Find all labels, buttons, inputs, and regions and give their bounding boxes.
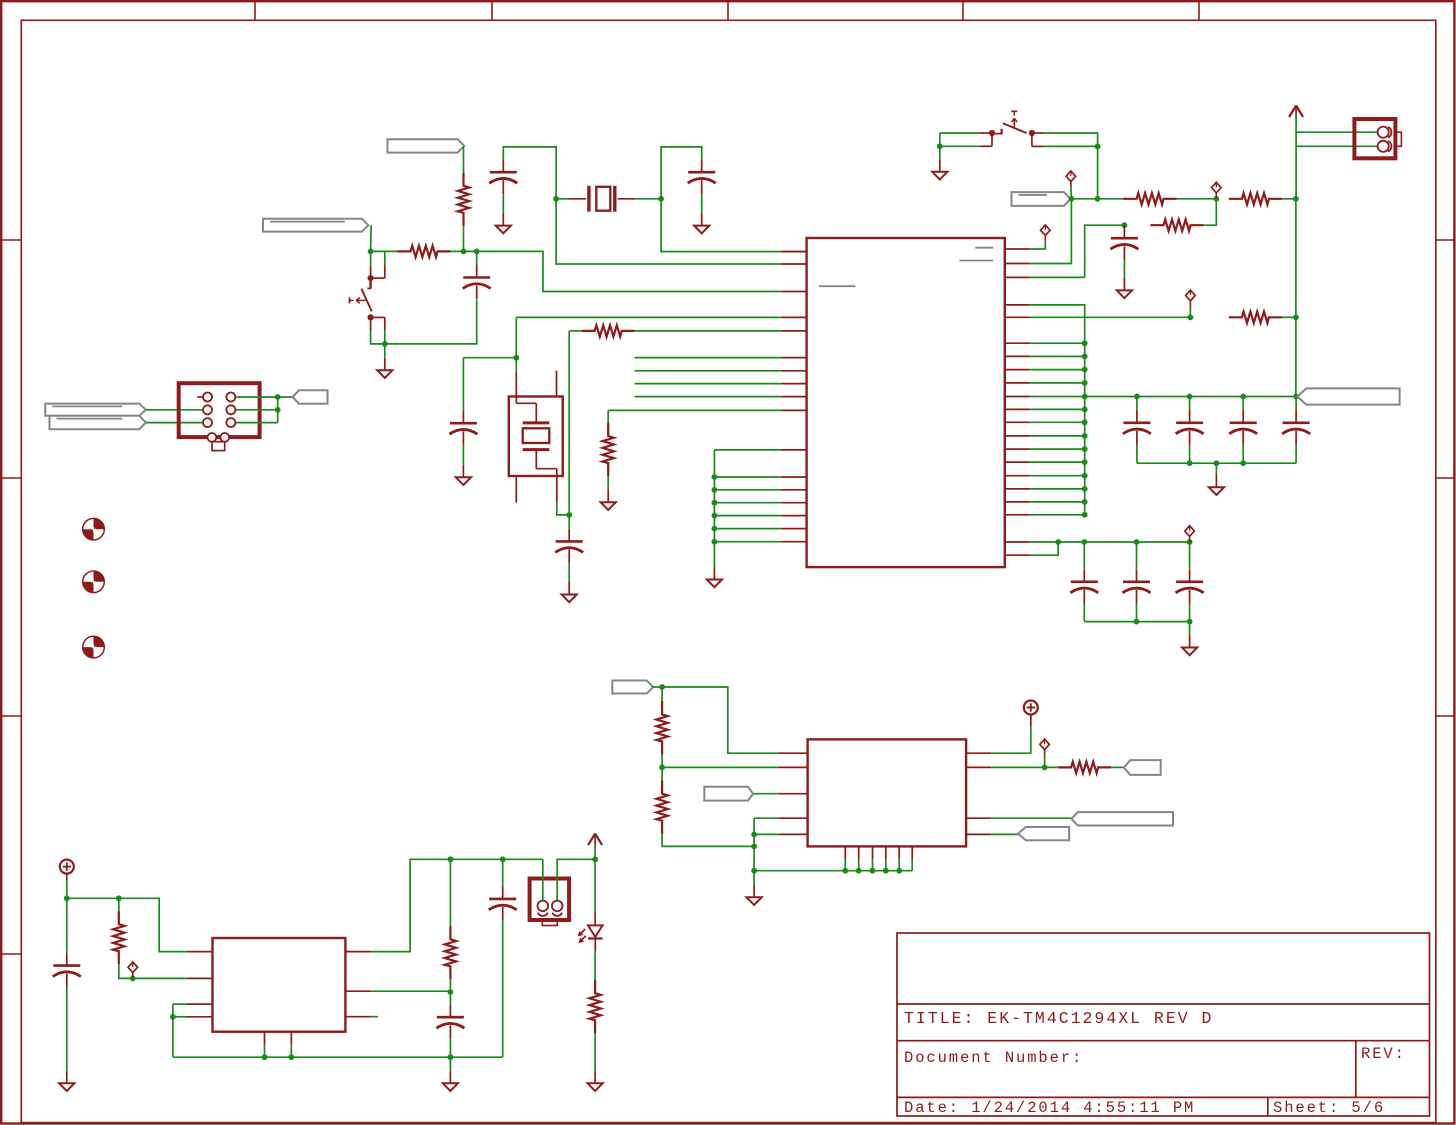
- pin: [345, 951, 371, 953]
- title block line 1: [897, 1003, 1430, 1005]
- pin: [1005, 263, 1030, 265]
- ground: [932, 159, 947, 179]
- pin: [264, 1032, 266, 1045]
- junction: [513, 355, 519, 361]
- wire: [1030, 541, 1190, 543]
- pin: [1005, 448, 1030, 450]
- pin: [290, 1032, 292, 1045]
- wire: [1189, 445, 1191, 464]
- wire: [67, 897, 119, 899]
- frame top tick 3: [727, 1, 729, 20]
- wire: [66, 879, 68, 898]
- pin: [979, 132, 990, 134]
- junction: [883, 868, 889, 874]
- pin: [778, 766, 807, 768]
- pin: [187, 1003, 213, 1005]
- wire: [66, 898, 68, 953]
- pin: [844, 846, 846, 859]
- junction: [659, 765, 665, 771]
- wire: [753, 818, 755, 871]
- wire: [1030, 421, 1085, 423]
- net flag WAKE: [388, 139, 465, 152]
- wire: [661, 147, 702, 199]
- pin: [778, 833, 807, 835]
- wire: [607, 410, 609, 423]
- wire: [462, 445, 464, 465]
- wire: [371, 300, 477, 344]
- pin: [782, 291, 807, 293]
- resistor R11: [589, 980, 600, 1033]
- junction: [1134, 619, 1140, 625]
- pin: [515, 476, 517, 503]
- ground: [496, 213, 511, 233]
- wire: [594, 951, 596, 980]
- wire: [1030, 475, 1085, 477]
- junction: [1069, 196, 1075, 202]
- wire: [503, 147, 556, 199]
- pin: [782, 396, 807, 398]
- pin: [1005, 369, 1030, 371]
- ground: [694, 213, 709, 233]
- pin: [1005, 355, 1030, 357]
- wire: [236, 396, 278, 398]
- wire: [66, 988, 68, 1071]
- capacitor C15: [53, 953, 81, 988]
- wire: [754, 833, 778, 835]
- pin: [1005, 475, 1030, 477]
- wire: [1085, 225, 1125, 277]
- capacitor C12: [1176, 569, 1204, 604]
- frame left tick 1: [1, 239, 21, 241]
- junction: [856, 868, 862, 874]
- pin: [782, 409, 807, 411]
- pin: [187, 1016, 213, 1018]
- junction: [1293, 394, 1299, 400]
- title block REV divider: [1355, 1041, 1357, 1098]
- wire: [1030, 369, 1085, 371]
- wire: [635, 396, 782, 398]
- wire: [1136, 542, 1138, 569]
- pin: [1005, 435, 1030, 437]
- junction: [448, 856, 454, 862]
- pin: [858, 846, 860, 859]
- ground: [1209, 475, 1224, 495]
- ground: [456, 465, 471, 485]
- rev text: [1361, 1045, 1406, 1063]
- wire: [1030, 396, 1137, 398]
- junction: [566, 512, 572, 518]
- junction: [170, 1014, 176, 1020]
- junction: [1095, 144, 1101, 150]
- wire: [556, 199, 782, 264]
- wire: [594, 859, 596, 913]
- wire: [1282, 198, 1296, 200]
- net flag FAULT: [704, 787, 753, 801]
- net flag WAKE2: [1012, 192, 1071, 206]
- wire: [370, 225, 373, 251]
- wire: [371, 250, 398, 252]
- connector J1: [179, 383, 260, 437]
- junction: [1082, 419, 1088, 425]
- wire: [635, 370, 782, 372]
- LED D1: [578, 912, 603, 951]
- capacitor C11: [1123, 569, 1151, 604]
- wire: [753, 871, 755, 885]
- IC U2 regulator: [213, 938, 346, 1032]
- wire: [277, 397, 279, 423]
- wire: [939, 133, 941, 146]
- fiducial FD1: [83, 518, 105, 540]
- junction: [1082, 433, 1088, 439]
- wire: [1030, 241, 1046, 249]
- wire: [1030, 316, 1191, 318]
- resistor R9: [113, 911, 124, 964]
- document number text: [904, 1049, 1083, 1067]
- wire: [1136, 604, 1138, 622]
- bottom rail wire: [1137, 462, 1296, 464]
- wire: [557, 503, 569, 515]
- frame right tick 3: [1436, 715, 1455, 717]
- junction: [1122, 222, 1128, 228]
- ground: [1182, 635, 1197, 655]
- wire: [568, 563, 570, 582]
- wire: [939, 146, 941, 159]
- wire: [885, 859, 887, 871]
- junction: [751, 844, 757, 850]
- pin: [1005, 276, 1030, 278]
- wire: [1137, 396, 1296, 398]
- pin: [1005, 316, 1030, 318]
- svg-text:Document Number:: Document Number:: [904, 1049, 1083, 1067]
- wire: [1296, 113, 1377, 132]
- wire: [1030, 305, 1085, 515]
- wire: [1242, 445, 1244, 464]
- switch pole: [989, 130, 995, 136]
- wire: [516, 316, 781, 318]
- wire: [911, 859, 913, 871]
- pin: [1032, 135, 1044, 146]
- wire: [1189, 604, 1191, 622]
- junction: [1293, 314, 1299, 320]
- wire: [146, 409, 203, 411]
- capacitor C16: [436, 1005, 464, 1039]
- frame left tick 3: [1, 715, 21, 717]
- oscillator module Y2: [509, 397, 563, 477]
- junction: [659, 684, 665, 690]
- wire: [371, 859, 543, 951]
- wire: [384, 251, 386, 265]
- ground: [59, 1071, 74, 1091]
- capacitor C3: [489, 160, 517, 195]
- wire: [502, 921, 504, 1057]
- wire: [858, 859, 860, 871]
- wire: [1030, 435, 1085, 437]
- wire: [568, 515, 570, 529]
- capacitor C6: [1123, 410, 1151, 445]
- junction: [870, 868, 876, 874]
- frame left tick 4: [1, 953, 21, 955]
- wire: [1136, 445, 1138, 464]
- junction: [1082, 407, 1088, 413]
- junction: [712, 526, 718, 532]
- wire: [384, 344, 386, 358]
- junction: [712, 487, 718, 493]
- wire: [371, 1016, 378, 1018]
- wire: [515, 358, 517, 372]
- frame top tick 4: [962, 1, 964, 20]
- wire: [173, 1016, 187, 1018]
- pin: [1005, 396, 1030, 398]
- pin: [515, 372, 517, 397]
- junction: [1214, 460, 1220, 466]
- pin: [782, 383, 807, 385]
- wire: [1177, 198, 1217, 200]
- title block line 2: [897, 1040, 1430, 1042]
- wire: [1123, 260, 1125, 278]
- pin: [966, 752, 991, 754]
- wire: [449, 1039, 451, 1057]
- pin: [1005, 248, 1030, 250]
- pin: [898, 846, 900, 859]
- pin: [187, 977, 213, 979]
- wire: [502, 194, 504, 213]
- wire: [236, 409, 278, 411]
- wire: [872, 859, 874, 871]
- pin: [782, 449, 807, 451]
- wire: [1295, 132, 1297, 199]
- junction: [712, 513, 718, 519]
- wire: [463, 147, 465, 173]
- net flag VIN SW: [1071, 812, 1173, 825]
- connector J3: [530, 879, 570, 926]
- supply diamond: [1066, 171, 1076, 187]
- pin: [1005, 382, 1030, 384]
- capacitor C5: [1110, 226, 1138, 261]
- junction: [288, 1054, 294, 1060]
- wire: [1030, 448, 1085, 450]
- date text: [904, 1099, 1195, 1117]
- wire: [236, 422, 278, 424]
- supply diamond: [1041, 225, 1051, 241]
- wire: [449, 859, 451, 926]
- pin: [778, 817, 807, 819]
- wire: [146, 422, 203, 424]
- pin: [782, 330, 807, 332]
- wire: [1204, 199, 1217, 225]
- pin: [1005, 421, 1030, 423]
- capacitor C14: [555, 529, 583, 564]
- net flag PGOOD: [1124, 760, 1161, 775]
- wire: [635, 383, 782, 385]
- wire: [370, 251, 372, 266]
- svg-text:Date: 1/24/2014 4:55:11 PM: Date: 1/24/2014 4:55:11 PM: [904, 1099, 1195, 1117]
- wire: [1030, 408, 1085, 410]
- wire: [569, 330, 581, 332]
- IC U1 label line: [819, 285, 856, 287]
- junction: [896, 868, 902, 874]
- wire: [1136, 397, 1138, 411]
- wire: [1071, 198, 1124, 200]
- switch pole: [368, 314, 374, 320]
- capacitor C8: [1229, 410, 1257, 445]
- ground: [1117, 278, 1132, 298]
- IC U3: [808, 739, 967, 846]
- wire: [713, 450, 715, 567]
- pin: [782, 251, 807, 253]
- junction: [712, 500, 718, 506]
- net flag FB: [1018, 827, 1069, 840]
- switch S1: [992, 111, 1027, 134]
- module crystal symbol: [516, 397, 557, 477]
- supply diamond: [1186, 290, 1196, 306]
- wire: [449, 979, 451, 992]
- fiducial FD2: [83, 571, 105, 593]
- pin: [1005, 408, 1030, 410]
- ground: [562, 582, 577, 602]
- IC U1: [807, 238, 1005, 567]
- pin: [1005, 461, 1030, 463]
- pin: [345, 1016, 371, 1018]
- wire: [515, 317, 517, 357]
- connector J2: [1354, 119, 1401, 158]
- wire: [662, 834, 754, 847]
- junction: [1081, 539, 1087, 545]
- junction: [1134, 394, 1140, 400]
- pin: [966, 833, 991, 835]
- wire: [118, 898, 120, 911]
- frame top tick 1: [254, 1, 256, 20]
- wire: [451, 251, 782, 291]
- pin: [371, 317, 385, 330]
- wire: [1044, 755, 1046, 767]
- svg-text:TITLE: EK-TM4C1294XL REV D: TITLE: EK-TM4C1294XL REV D: [904, 1009, 1213, 1028]
- sheet text: [1273, 1099, 1385, 1117]
- wire: [1070, 187, 1073, 199]
- wire: [991, 817, 1072, 819]
- junction: [116, 895, 122, 901]
- IC U1 name line: [975, 247, 993, 249]
- IC U1 value line: [959, 260, 993, 262]
- wire: [714, 449, 781, 451]
- pin: [966, 766, 991, 768]
- junction: [1188, 314, 1194, 320]
- capacitor C2: [463, 265, 491, 300]
- pin: [782, 502, 807, 504]
- wire: [449, 1057, 451, 1071]
- wire: [384, 330, 386, 344]
- crystal Y1: [569, 186, 636, 212]
- pin: [778, 752, 807, 754]
- wire: [1083, 604, 1085, 622]
- junction: [1187, 539, 1193, 545]
- fiducial FD3: [83, 636, 105, 658]
- wire: [1189, 542, 1191, 569]
- wire: [1296, 145, 1377, 147]
- wire: [278, 396, 293, 398]
- junction: [937, 143, 943, 149]
- title block Sheet divider: [1267, 1097, 1269, 1116]
- resistor R3: [1124, 193, 1177, 204]
- pin: [1005, 501, 1030, 503]
- wire: [542, 859, 544, 901]
- wire: [661, 687, 663, 702]
- wire: [661, 199, 782, 252]
- wire: [714, 528, 781, 530]
- wire: [449, 992, 451, 1005]
- wire: [1044, 145, 1098, 147]
- resistor R6: [1150, 220, 1203, 231]
- title block box: [897, 933, 1430, 1116]
- capacitor C9: [1282, 410, 1310, 445]
- pin: [979, 135, 992, 146]
- net flag RESET: [263, 219, 368, 232]
- wire: [462, 358, 464, 411]
- net flag TDO: [293, 390, 328, 404]
- wire: [290, 1044, 292, 1057]
- wire: [1295, 445, 1297, 464]
- frame right tick 1: [1436, 239, 1455, 241]
- junction: [712, 474, 718, 480]
- pin: [1034, 132, 1044, 134]
- wire: [463, 226, 465, 252]
- capacitor C13: [449, 411, 477, 446]
- ground: [588, 1071, 603, 1091]
- pin: [345, 990, 371, 992]
- pin: [1005, 554, 1030, 556]
- junction: [275, 394, 281, 400]
- pin: [187, 951, 213, 953]
- wire: [1030, 199, 1072, 264]
- junction: [592, 856, 598, 862]
- junction: [1082, 486, 1088, 492]
- wire: [264, 1044, 266, 1057]
- svg-text:Sheet: 5/6: Sheet: 5/6: [1273, 1099, 1385, 1117]
- wire: [463, 357, 516, 359]
- supply diamond: [1212, 182, 1222, 198]
- junction: [1082, 367, 1088, 373]
- wire: [1282, 316, 1296, 318]
- pin: [1005, 514, 1030, 516]
- wire: [594, 1033, 596, 1071]
- net flag TCK: [45, 404, 146, 416]
- pin: [911, 846, 913, 859]
- junction: [1082, 459, 1088, 465]
- switch pole: [368, 275, 374, 281]
- wire: [502, 859, 504, 886]
- wire: [714, 515, 781, 517]
- junction: [1055, 539, 1061, 545]
- wire: [607, 476, 609, 490]
- wire: [898, 859, 900, 871]
- net flag EN: [612, 681, 653, 694]
- wire: [568, 331, 570, 515]
- wire: [991, 766, 1058, 768]
- junction: [1082, 340, 1088, 346]
- bottom rail wire: [1084, 621, 1189, 623]
- junction: [1082, 394, 1088, 400]
- wire: [1030, 342, 1085, 344]
- wire: [635, 330, 782, 332]
- pin: [370, 266, 372, 278]
- wire: [1111, 766, 1124, 768]
- title text: [904, 1009, 1213, 1028]
- supply diamond: [128, 962, 138, 978]
- resistor R12: [656, 701, 667, 754]
- resistor R4: [1229, 193, 1282, 204]
- junction: [1095, 196, 1101, 202]
- pin: [1005, 488, 1030, 490]
- power flag P2: [1024, 701, 1038, 721]
